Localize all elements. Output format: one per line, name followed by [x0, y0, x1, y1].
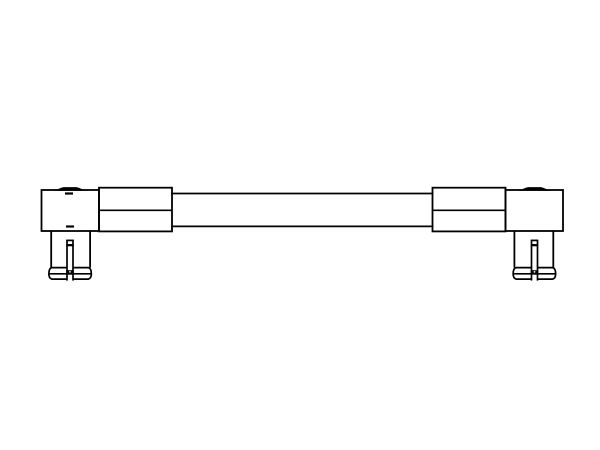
left foot right half — [73, 268, 91, 280]
right body top boss (dome) — [518, 187, 551, 191]
right foot equator line — [513, 273, 555, 275]
left center pin cap — [66, 239, 74, 241]
right foot outer half — [538, 268, 556, 280]
left ferrule seam line — [99, 209, 172, 211]
left foot left half — [49, 268, 67, 280]
left center pin collar band — [66, 244, 73, 246]
cable jacket (top and bottom lines of coax cable) — [171, 194, 434, 227]
right connector body — [506, 190, 564, 231]
right center pin collar band — [531, 244, 538, 246]
left center pin tip — [66, 270, 74, 274]
right center pin sides — [532, 240, 538, 280]
left snap barrel sides — [51, 231, 90, 268]
left connector J1 — [42, 187, 173, 281]
right ferrule seam line — [433, 209, 506, 211]
right connector J2 (mirror of left) — [433, 187, 564, 281]
right crimp ferrule — [433, 188, 506, 232]
right center pin tip — [531, 270, 539, 274]
right foot inner half — [513, 268, 531, 280]
right center pin cap — [531, 239, 539, 241]
left crimp ferrule — [99, 188, 172, 232]
right pin tip highlight — [534, 271, 536, 273]
left center pin sides — [67, 240, 73, 280]
right snap barrel sides — [514, 231, 553, 268]
left body top boss (dome) — [54, 187, 87, 191]
left connector body — [42, 190, 100, 231]
left body lower tick mark — [66, 225, 74, 227]
left pin tip highlight — [69, 271, 71, 273]
left foot equator line — [49, 273, 91, 275]
left body upper tick mark — [65, 192, 73, 194]
